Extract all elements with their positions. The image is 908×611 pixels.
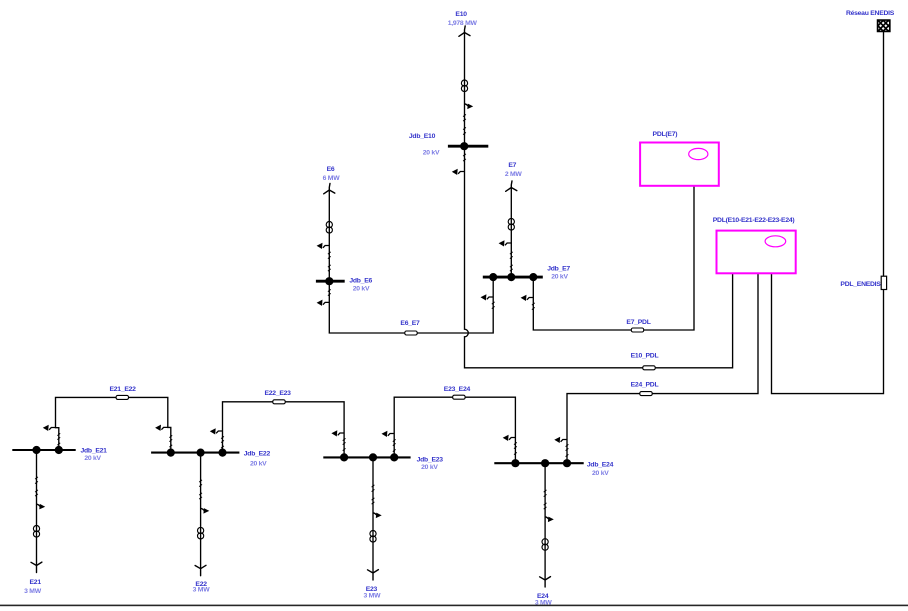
svg-text:20 kV: 20 kV — [84, 455, 101, 462]
svg-text:E23_E24: E23_E24 — [444, 386, 471, 393]
svg-text:E10_PDL: E10_PDL — [631, 353, 659, 360]
svg-text:Jdb_E22: Jdb_E22 — [244, 450, 271, 457]
svg-text:E6_E7: E6_E7 — [400, 320, 420, 327]
svg-text:PDL(E7): PDL(E7) — [653, 131, 678, 138]
svg-text:Jdb_E7: Jdb_E7 — [547, 266, 570, 273]
svg-text:Jdb_E10: Jdb_E10 — [409, 133, 436, 140]
svg-text:20 kV: 20 kV — [353, 286, 370, 293]
svg-text:E24_PDL: E24_PDL — [631, 382, 659, 389]
svg-text:Jdb_E23: Jdb_E23 — [417, 456, 444, 463]
svg-text:3 MW: 3 MW — [535, 599, 553, 606]
svg-text:20 kV: 20 kV — [250, 461, 267, 468]
svg-text:1,978 MW: 1,978 MW — [448, 20, 478, 27]
svg-text:E21_E22: E21_E22 — [109, 386, 136, 393]
svg-text:E7: E7 — [508, 162, 516, 169]
svg-text:6 MW: 6 MW — [323, 175, 341, 182]
svg-text:20 kV: 20 kV — [592, 470, 609, 477]
svg-text:20 kV: 20 kV — [421, 464, 438, 471]
svg-text:3 MW: 3 MW — [193, 586, 211, 593]
svg-text:E7_PDL: E7_PDL — [626, 319, 650, 326]
svg-text:2 MW: 2 MW — [505, 171, 523, 178]
svg-text:PDL(E10-E21-E22-E23-E24): PDL(E10-E21-E22-E23-E24) — [713, 217, 795, 224]
svg-text:3 MW: 3 MW — [24, 588, 42, 595]
svg-text:Jdb_E21: Jdb_E21 — [80, 447, 107, 454]
svg-text:3 MW: 3 MW — [364, 592, 382, 599]
svg-text:PDL_ENEDIS: PDL_ENEDIS — [840, 281, 881, 288]
svg-text:20 kV: 20 kV — [551, 273, 568, 280]
svg-text:Jdb_E24: Jdb_E24 — [587, 462, 614, 469]
svg-text:20 kV: 20 kV — [423, 150, 440, 157]
svg-text:Jdb_E6: Jdb_E6 — [349, 278, 372, 285]
svg-text:E22_E23: E22_E23 — [264, 390, 291, 397]
svg-text:E6: E6 — [327, 166, 335, 173]
svg-text:E10: E10 — [455, 11, 467, 18]
svg-text:E21: E21 — [30, 579, 42, 586]
svg-text:Réseau ENEDIS: Réseau ENEDIS — [846, 10, 895, 17]
